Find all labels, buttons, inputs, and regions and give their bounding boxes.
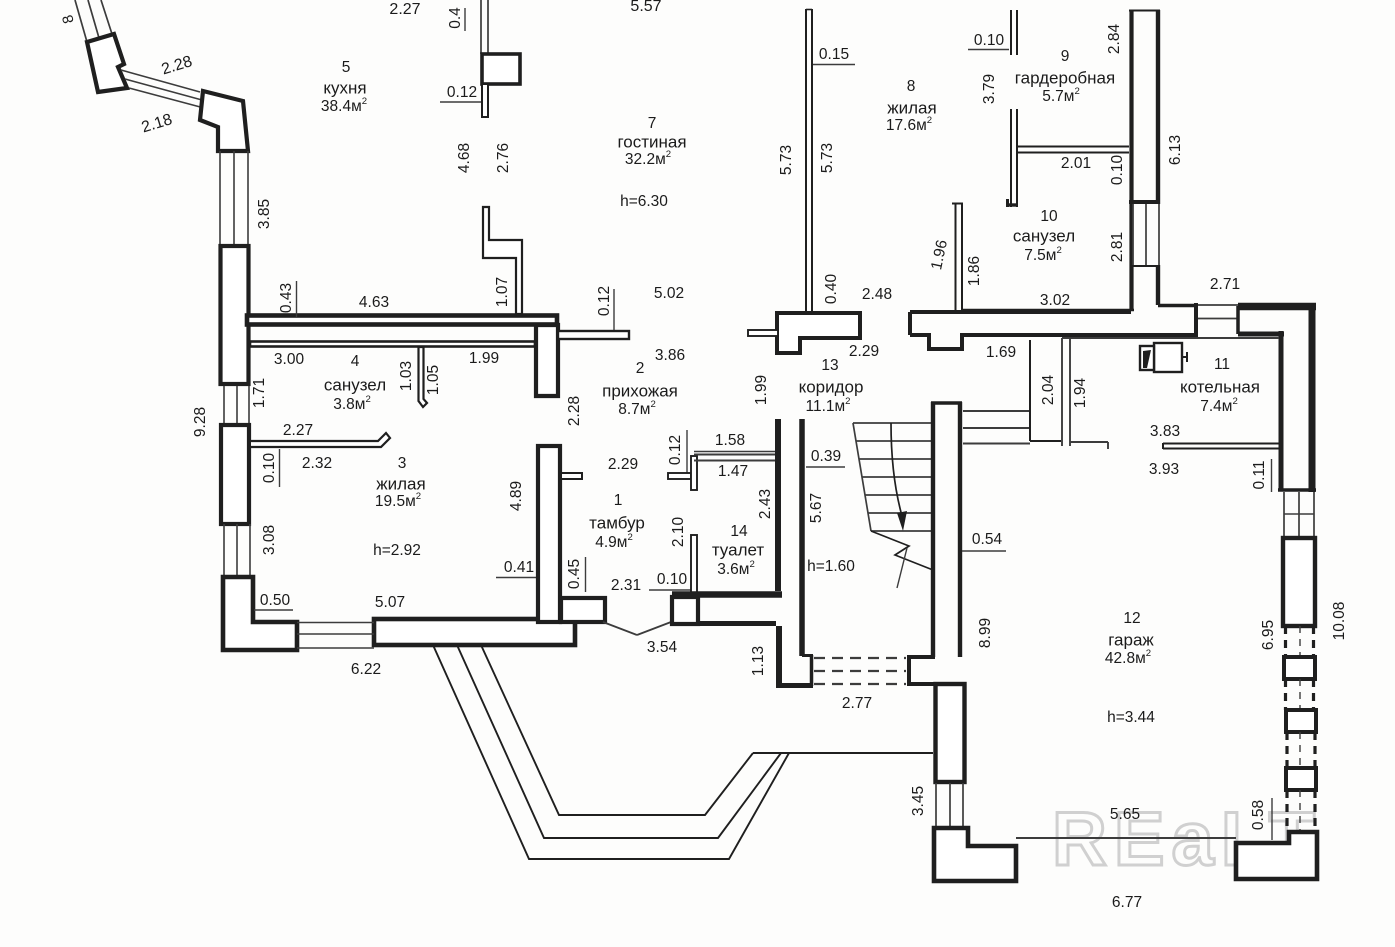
window east upper (1133, 204, 1159, 265)
dimension 2.76 rotated (495, 143, 512, 173)
svg-text:9: 9 (1061, 48, 1070, 65)
svg-text:5.57: 5.57 (630, 0, 661, 15)
svg-text:2.31: 2.31 (611, 577, 641, 594)
wall pier P2 (200, 91, 248, 151)
window garage west 3.45 (936, 783, 963, 828)
svg-text:3.85: 3.85 (256, 199, 273, 229)
wall south under wc (698, 621, 776, 626)
svg-text:1.99: 1.99 (753, 375, 770, 405)
dimension 5.65 (1110, 806, 1140, 823)
svg-text:8.99: 8.99 (977, 618, 994, 648)
dimension 2.28 diagonal (160, 53, 195, 78)
svg-text:тамбур: тамбур (589, 513, 645, 532)
dimension 4.63 (359, 294, 389, 311)
dimension 0.15 with underline (813, 46, 855, 64)
wall thin bar 0.12 right of hall corner (558, 331, 629, 339)
svg-text:42.8м2: 42.8м2 (1105, 648, 1151, 668)
dimension 1.07 rotated (494, 277, 511, 307)
wall wc west thin bar (691, 535, 697, 597)
dimension 5.73 right rotated (819, 143, 836, 173)
svg-text:0.43: 0.43 (278, 283, 295, 313)
dimension 3.85 rotated (256, 199, 273, 229)
wall stair east hollow (931, 402, 962, 657)
stairs landing lines (963, 411, 1030, 444)
svg-text:3.45: 3.45 (910, 786, 927, 816)
svg-text:h=6.30: h=6.30 (620, 193, 668, 210)
wall wc north double (694, 455, 776, 461)
room label 7 living room (617, 115, 686, 210)
dimension 9.28 rotated (192, 407, 209, 437)
svg-text:2.84: 2.84 (1106, 24, 1123, 55)
svg-text:2.32: 2.32 (302, 455, 332, 472)
dimension 0.12 rotated with line hall (596, 286, 614, 330)
room outline sanuzel10 floor thin (962, 309, 1134, 311)
svg-text:7.4м2: 7.4м2 (1200, 396, 1238, 416)
svg-text:2.81: 2.81 (1109, 232, 1126, 262)
wall stair lower south (776, 683, 813, 688)
terrace inner step (481, 645, 753, 815)
dimension 1.03 rotated (398, 361, 415, 391)
dimension 2.01 (1061, 155, 1091, 172)
svg-text:4.9м2: 4.9м2 (595, 532, 633, 552)
room label 9 garderobnaya (1015, 48, 1115, 105)
dimension 3.00 (274, 351, 305, 368)
room label 5 kitchen (321, 59, 367, 115)
dimension 1.47 (718, 463, 748, 480)
svg-text:гардеробная: гардеробная (1015, 68, 1115, 87)
room label 8 zhilaya (886, 78, 937, 134)
dimension 2.27 top edge (389, 1, 420, 18)
wall corridor north right band (910, 303, 1196, 349)
dimension 2.32 (302, 455, 332, 472)
wall boiler door stub (1070, 442, 1108, 449)
svg-text:1.58: 1.58 (715, 432, 745, 449)
room label 14 wc (712, 523, 765, 578)
wall tick tambur right (561, 473, 582, 479)
window east 492-538 (1284, 492, 1314, 538)
room label 2 prihozhaya (602, 360, 678, 418)
dimension 6.95 rotated (1260, 620, 1277, 650)
dimension 0.12 with underline kitchen (440, 84, 481, 102)
wall garage southwest block (934, 828, 1016, 881)
svg-text:0.15: 0.15 (819, 46, 849, 63)
svg-text:прихожая: прихожая (602, 381, 678, 400)
svg-text:1.05: 1.05 (425, 365, 442, 395)
svg-text:котельная: котельная (1180, 377, 1260, 396)
dimension 1.69 (986, 344, 1016, 361)
wall wc floor (672, 591, 782, 598)
svg-text:0.12: 0.12 (447, 84, 477, 101)
wall boiler top inner bar (1238, 306, 1284, 334)
wall tambur south left (561, 598, 605, 622)
svg-text:4: 4 (351, 353, 360, 370)
dimension 3.54 (647, 639, 678, 656)
svg-text:0.11: 0.11 (1251, 460, 1268, 489)
svg-text:1.86: 1.86 (966, 256, 983, 286)
wall southwest corner L-block (223, 577, 297, 650)
dimension 0.10 rotated room3 with line (261, 449, 279, 487)
dimension 3.08 rotated (261, 525, 278, 555)
dimension 1.94 rotated (1072, 378, 1089, 409)
svg-text:6.13: 6.13 (1167, 135, 1184, 165)
dimension 3.45 rotated (910, 786, 927, 816)
wall boiler east (1279, 331, 1284, 490)
svg-text:3.00: 3.00 (274, 351, 305, 368)
dimension 0.39 with underline (806, 448, 845, 467)
svg-text:0.10: 0.10 (1109, 155, 1126, 186)
wall Z-partition kitchen/living (483, 207, 522, 314)
wall boiler west double (1062, 338, 1070, 446)
svg-text:11: 11 (1214, 356, 1230, 373)
room label 4 sanuzel (324, 353, 386, 413)
svg-text:38.4м2: 38.4м2 (321, 96, 367, 116)
svg-text:3.8м2: 3.8м2 (333, 394, 371, 414)
dimension 6.22 (351, 661, 381, 678)
svg-text:1.71: 1.71 (251, 378, 268, 408)
svg-text:7.5м2: 7.5м2 (1024, 245, 1062, 265)
svg-text:2: 2 (636, 360, 645, 377)
dimension 0.8 rotated top-left (59, 13, 78, 25)
svg-text:1.03: 1.03 (398, 361, 415, 391)
dimension 2.48 (862, 286, 892, 303)
boiler unit symbol (1140, 343, 1187, 372)
wall west upper segment (221, 246, 249, 384)
terrace middle step (457, 645, 781, 838)
svg-text:0.39: 0.39 (811, 448, 841, 465)
svg-text:3.86: 3.86 (655, 347, 685, 364)
svg-text:0.58: 0.58 (1250, 800, 1267, 830)
wall partition room8/9 upper (1011, 10, 1017, 55)
wire scan-edge dimension lines top-left (75, 0, 112, 42)
room label 3 zhilaya (373, 455, 426, 559)
svg-text:3.08: 3.08 (261, 525, 278, 555)
wall small L near wc (668, 456, 697, 490)
wall right jamb under stairs (909, 657, 935, 684)
wall partition 2.27 with tip (251, 433, 390, 447)
wall east block1 (1283, 538, 1315, 626)
svg-text:9.28: 9.28 (192, 407, 209, 437)
dimension 1.99 rotated corridor (753, 375, 770, 405)
svg-text:5.73: 5.73 (819, 143, 836, 173)
dimension 2.18 diagonal (140, 111, 175, 136)
dimension 2.29 corridor (849, 343, 879, 360)
dimension 6.13 rotated (1167, 135, 1184, 165)
svg-text:1: 1 (614, 492, 623, 509)
stairs break line zigzag (871, 531, 933, 588)
svg-text:14: 14 (730, 523, 748, 540)
window chimney flue lines above (481, 0, 488, 54)
svg-text:1.07: 1.07 (494, 277, 511, 307)
stairs direction arrow (891, 423, 907, 531)
svg-text:4.89: 4.89 (508, 481, 525, 511)
terrace outer step (433, 645, 789, 859)
svg-text:туалет: туалет (712, 540, 765, 559)
svg-text:2.29: 2.29 (849, 343, 879, 360)
dimension 1.99 prihozhaya (469, 350, 499, 367)
dimension 3.83 (1150, 423, 1180, 440)
wall partition sanuzel4/prihozhaya (419, 347, 428, 407)
window diagonal glazing lines (121, 70, 204, 108)
wall I-partition room9 west (1006, 109, 1018, 207)
wall partition room9/10 double (1017, 147, 1129, 153)
dimension 3.02 (1040, 292, 1070, 309)
svg-text:5.07: 5.07 (375, 594, 405, 611)
svg-text:санузел: санузел (324, 375, 386, 394)
room label 11 boiler (1180, 356, 1260, 415)
svg-text:5.65: 5.65 (1110, 806, 1140, 823)
dimension 2.31 (611, 577, 641, 594)
svg-text:5: 5 (342, 59, 351, 76)
window west vertical upper glazing (220, 151, 248, 246)
wall east pier2 (1286, 710, 1316, 732)
window 2.71 double line (1196, 305, 1238, 319)
dimension 0.10 with underline room9 (968, 32, 1009, 49)
svg-text:13: 13 (821, 357, 838, 374)
dimension 0.10 wc2 - none (0, 0, 1, 1)
svg-text:3.6м2: 3.6м2 (717, 559, 755, 579)
svg-text:2.29: 2.29 (608, 456, 638, 473)
watermark Realt (1052, 797, 1322, 882)
wall partition room7/room8 double line (806, 9, 812, 313)
svg-text:3.02: 3.02 (1040, 292, 1070, 309)
wall room3 south block (374, 619, 575, 645)
wall landing partition 1.69 (1029, 340, 1031, 441)
svg-text:2.27: 2.27 (283, 422, 313, 439)
svg-text:5.02: 5.02 (654, 285, 684, 302)
dimension 3.86 (655, 347, 685, 364)
wall hall north thin band (250, 342, 535, 347)
svg-text:2.77: 2.77 (842, 695, 872, 712)
svg-text:11.1м2: 11.1м2 (805, 396, 850, 416)
svg-text:0.10: 0.10 (261, 453, 278, 484)
wall east pier1 (1284, 657, 1315, 679)
svg-text:кухня: кухня (323, 78, 366, 97)
svg-text:12: 12 (1123, 610, 1140, 627)
dimension 2.29 tambur (608, 456, 638, 473)
dimension 2.71 (1210, 276, 1240, 293)
svg-text:32.2м2: 32.2м2 (625, 149, 671, 169)
dimension 1.86 rotated (966, 256, 983, 286)
svg-text:1.47: 1.47 (718, 463, 748, 480)
svg-text:0.41: 0.41 (504, 559, 534, 576)
svg-text:3.93: 3.93 (1149, 461, 1179, 478)
svg-text:10: 10 (1040, 208, 1058, 225)
wall left jamb under stairs (802, 655, 813, 686)
svg-text:3: 3 (398, 455, 407, 472)
dimension 10.08 rotated (1331, 602, 1348, 641)
wall east cap at window (1129, 200, 1160, 204)
dimension 5.67 rotated (808, 493, 825, 523)
dimension 4.68 rotated (456, 143, 473, 173)
dashed east gap1 (1286, 626, 1314, 657)
dimension 2.77 (842, 695, 872, 712)
garage door opening line (1016, 837, 1236, 839)
wall northeast corner top bar (1238, 303, 1316, 311)
dimension 1.13 rotated (750, 646, 767, 676)
wall garage west hollow (936, 684, 965, 782)
wall landing bottom line (1030, 440, 1061, 442)
dimension 0.43 rotated with line (278, 281, 296, 317)
svg-text:0.12: 0.12 (596, 286, 613, 316)
dimension 2.84 rotated (1106, 24, 1123, 55)
wall partition room10 west double (952, 203, 963, 312)
dimension 5.73 left rotated (778, 145, 795, 175)
svg-text:5.73: 5.73 (778, 145, 795, 175)
svg-text:17.6м2: 17.6м2 (886, 115, 932, 135)
svg-text:2.76: 2.76 (495, 143, 512, 173)
svg-text:5.7м2: 5.7м2 (1042, 86, 1080, 106)
svg-text:3.83: 3.83 (1150, 423, 1180, 440)
svg-text:2.48: 2.48 (862, 286, 892, 303)
dimension 2.43 rotated (757, 489, 774, 519)
svg-text:5.67: 5.67 (808, 493, 825, 523)
dashed east gap2 (1286, 679, 1314, 710)
dimension 5.07 (375, 594, 405, 611)
room label 13 corridor (799, 357, 864, 415)
svg-text:0.10: 0.10 (657, 571, 688, 588)
svg-text:4.68: 4.68 (456, 143, 473, 173)
svg-text:2.28: 2.28 (566, 396, 583, 426)
svg-text:h=1.60: h=1.60 (807, 558, 855, 575)
dimension 5.57 top edge (630, 0, 661, 15)
wall east garage right line (1309, 303, 1316, 492)
dimension 1.71 rotated (251, 378, 268, 408)
dimension 0.54 with underline (962, 531, 1006, 551)
svg-text:0.54: 0.54 (972, 531, 1003, 548)
svg-text:1.94: 1.94 (1072, 378, 1089, 409)
svg-text:2.04: 2.04 (1040, 375, 1057, 406)
window west lower (224, 524, 250, 577)
wall tambur west (538, 446, 560, 622)
svg-text:h=3.44: h=3.44 (1107, 709, 1155, 726)
dimension 3.79 rotated (981, 74, 998, 104)
dimension 5.02 (654, 285, 684, 302)
wall east cap y490 (1278, 488, 1316, 492)
room label 10 sanuzel (1013, 208, 1075, 264)
wall southeast corner block (1236, 832, 1317, 879)
svg-text:0.45: 0.45 (566, 559, 583, 589)
svg-text:10.08: 10.08 (1331, 602, 1348, 641)
svg-text:19.5м2: 19.5м2 (375, 491, 421, 511)
window west middle (224, 386, 249, 424)
svg-text:0.40: 0.40 (823, 274, 840, 305)
svg-text:7: 7 (648, 115, 657, 132)
svg-text:1.69: 1.69 (986, 344, 1016, 361)
svg-text:8: 8 (907, 78, 916, 95)
dimension 6.77 (1112, 894, 1142, 911)
dimension 0.11 rotated with line (1251, 459, 1271, 492)
label h=1.60 (807, 558, 855, 575)
wall wc east hollow left line (775, 419, 781, 591)
room label 12 garage (1105, 610, 1155, 726)
svg-text:0.4: 0.4 (447, 7, 464, 29)
svg-text:6.95: 6.95 (1260, 620, 1277, 650)
svg-text:0.12: 0.12 (667, 435, 684, 465)
dimension 8.99 rotated (977, 618, 994, 648)
dimension 2.04 rotated (1040, 375, 1057, 406)
dimension 3.93 (1149, 461, 1179, 478)
wall wc east hollow right line (799, 419, 805, 656)
dimension 2.28 rotated prihozhaya (566, 396, 583, 426)
svg-text:коридор: коридор (799, 377, 864, 396)
svg-text:2.71: 2.71 (1210, 276, 1240, 293)
svg-text:2.01: 2.01 (1061, 155, 1091, 172)
wall stair lower west vertical (776, 626, 782, 686)
svg-text:0.50: 0.50 (260, 592, 291, 609)
svg-text:гостиная: гостиная (617, 132, 686, 151)
svg-text:4.63: 4.63 (359, 294, 389, 311)
wall entrance right block (672, 597, 698, 624)
dashed east gap3 (1287, 732, 1315, 768)
dimension 0.45 rotated with line (566, 557, 585, 592)
window room3 south (297, 623, 374, 649)
dimension 1.05 rotated (425, 365, 442, 395)
dimension 1.58 with underline (694, 432, 776, 451)
room label 1 tambur (589, 492, 645, 551)
dimension 0.10 tambur with underline (649, 571, 695, 590)
dimension 2.10 rotated (670, 517, 687, 548)
svg-text:6.77: 6.77 (1112, 894, 1142, 911)
dashed under-stair opening (814, 658, 906, 684)
door entrance V lines (603, 622, 671, 635)
svg-text:2.43: 2.43 (757, 489, 774, 519)
wall north piece to window271 (1158, 304, 1196, 308)
svg-text:2.10: 2.10 (670, 517, 687, 548)
svg-text:6.22: 6.22 (351, 661, 381, 678)
chimney block kitchen (482, 54, 520, 84)
terrace top edge to garage (753, 752, 933, 754)
wall west lower segment (221, 425, 249, 524)
dashed east gap4 (1287, 790, 1315, 832)
dimension 0.41 with underline (496, 559, 538, 577)
svg-text:санузел: санузел (1013, 226, 1075, 245)
svg-text:8.7м2: 8.7м2 (618, 399, 656, 419)
dimension 2.27 room4 (283, 422, 313, 439)
svg-text:1.13: 1.13 (750, 646, 767, 676)
wall east segment2 (1131, 265, 1159, 305)
wall kitchen south thick (247, 316, 557, 325)
dimension 0.12 rotated wc with line (667, 430, 687, 473)
dimension 0.50 with underline (254, 592, 293, 610)
wall hall corner vertical (536, 325, 558, 396)
svg-text:2.27: 2.27 (389, 1, 420, 18)
svg-text:3.79: 3.79 (981, 74, 998, 104)
dimension 4.89 rotated (508, 481, 525, 511)
dimension 1.96 rotated (928, 238, 951, 271)
wall east pier3 (1286, 768, 1316, 790)
dimension 0.58 rotated with line (1250, 798, 1272, 840)
dimension 0.4 rotated with line (447, 7, 465, 31)
dimension 0.40 rotated (823, 274, 840, 305)
wall thin tick left of block (748, 330, 778, 336)
wall east upper hollow (1129, 10, 1160, 310)
svg-text:1.99: 1.99 (469, 350, 499, 367)
wall stub below chimney (482, 84, 488, 117)
wall corridor north left block (777, 313, 860, 353)
wall boiler floor double line (1163, 443, 1280, 449)
svg-text:3.54: 3.54 (647, 639, 678, 656)
wall pier P1 top-left (87, 34, 127, 92)
room outline boiler thin (1062, 337, 1279, 339)
svg-text:0.10: 0.10 (974, 32, 1005, 49)
dimension 0.10 rotated room10 (1109, 155, 1126, 186)
svg-text:h=2.92: h=2.92 (373, 542, 421, 559)
stairs treads (853, 423, 931, 531)
dimension 2.81 rotated (1109, 232, 1126, 262)
